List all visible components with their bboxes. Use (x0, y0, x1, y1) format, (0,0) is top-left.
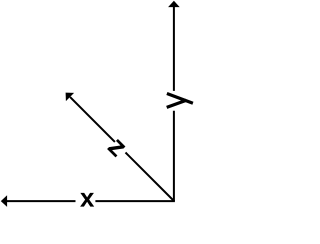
z-axis arrowhead (66, 93, 75, 102)
z-axis diagonal line lower segment (origin to label gap) (126, 153, 175, 202)
label x (80, 193, 94, 207)
y-axis arrowhead (168, 1, 180, 7)
y-axis vertical line lower segment (origin to label gap) (173, 111, 175, 201)
x-axis horizontal line left segment (label gap to arrowhead) (7, 200, 76, 202)
coordinate axes diagram (0, 0, 217, 244)
label y (rotated -90) (167, 94, 193, 108)
z-axis diagonal line upper segment (label gap to arrowhead) (70, 97, 115, 142)
x-axis arrowhead (1, 195, 7, 207)
label z (rotated +45) (107, 139, 125, 157)
y-axis vertical line upper segment (label gap to arrowhead) (173, 7, 175, 91)
x-axis horizontal line right segment (origin to label gap) (95, 200, 174, 202)
